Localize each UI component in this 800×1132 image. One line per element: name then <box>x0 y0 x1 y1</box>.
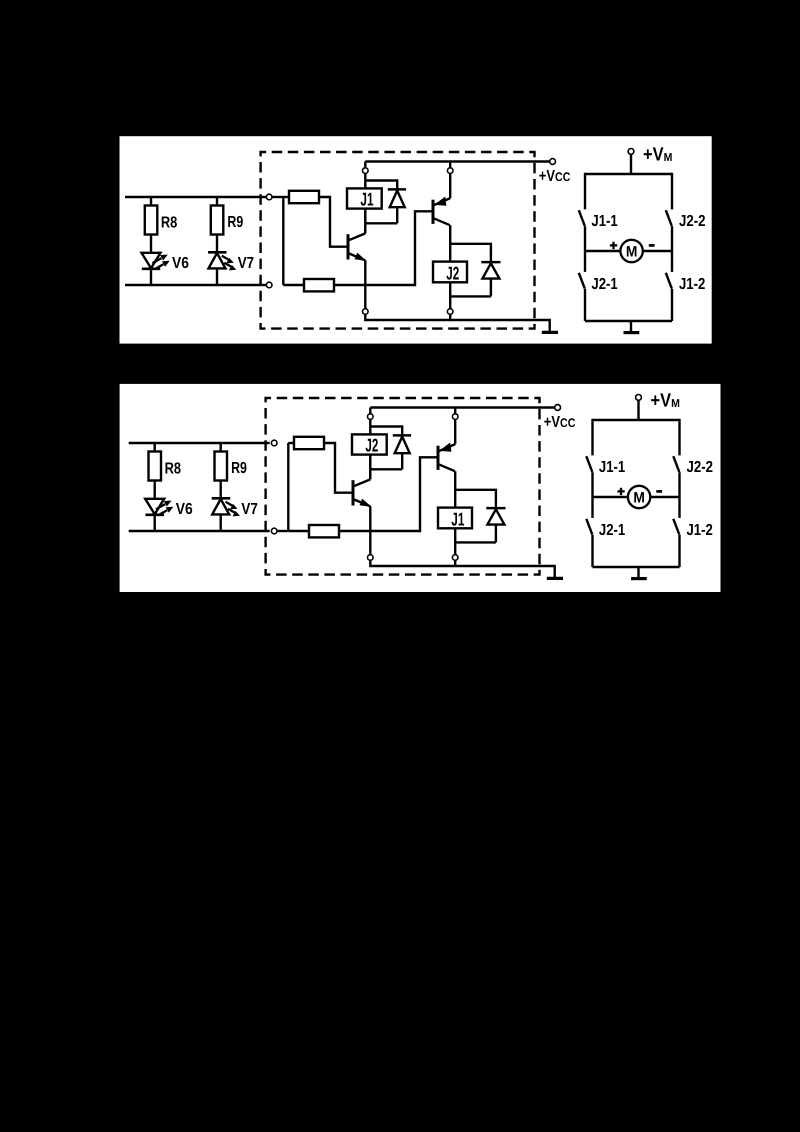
input network fig1 (R8 R9 V6 V7) <box>125 197 266 285</box>
input network fig2 (R8 R9 V6 V7) <box>129 443 270 531</box>
svg-text:J2: J2 <box>365 435 378 456</box>
motor H-bridge fig1 <box>579 144 706 332</box>
driver module fig1 (Q1 Q2 relays diodes) <box>261 152 571 332</box>
motor H-bridge fig2 <box>586 390 713 578</box>
driver module fig2 (Q1 Q2 relays diodes) <box>266 398 576 578</box>
svg-text:J1: J1 <box>451 508 464 529</box>
wire bottom terminal link fig2 <box>277 530 288 532</box>
svg-text:J2: J2 <box>446 262 459 283</box>
figure 1 white panel <box>120 136 712 343</box>
wire top terminal link fig1 <box>272 196 284 198</box>
figure 2 white panel <box>120 384 721 592</box>
svg-text:J1: J1 <box>360 189 373 210</box>
